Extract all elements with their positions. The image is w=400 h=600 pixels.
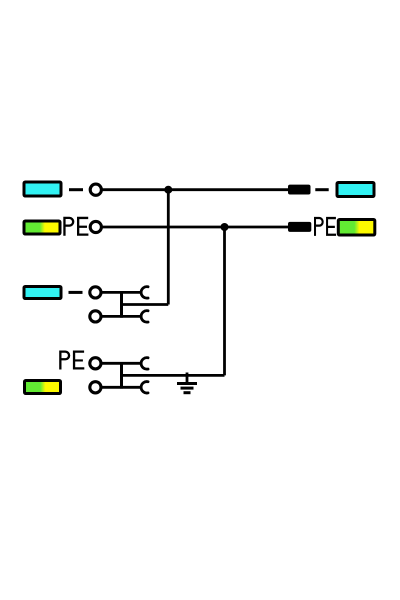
node (entry circle, clamp group 2 upper) [90,358,101,369]
wire (clamp group 2 tap to node B) [122,374,225,377]
clamp contact (spring, group 2 lower) [141,382,148,393]
node (entry circle, clamp group 1 upper) [90,287,101,298]
wire (vertical from node A down to clamp tap) [167,190,170,305]
wire (dash, row 1 left) [69,188,83,191]
marker M3 (green/yellow PE, row 2 left) [24,221,60,234]
wire (clamp group 2 lower contact) [102,386,141,389]
label PE (row 2 right) [314,217,336,236]
node (entry circle, clamp group 1 lower) [90,311,101,322]
wire (vertical from node B down to PE tap) [223,227,226,375]
node A (junction dot, row 1) [164,186,172,194]
label PE (clamp group 2) [59,351,84,370]
marker M5 (cyan, clamp group 1) [24,287,61,299]
contact blade (black marker, row 2 right) [288,222,311,232]
node B (junction dot, row 2) [221,223,229,231]
wire (clamp group 1 common bar) [120,291,123,318]
wire (clamp group 2 common bar) [120,362,123,389]
ground (earth symbol) [177,373,197,393]
marker M1 (cyan, row 1 left) [24,182,61,196]
marker M4 (green/yellow PE, row 2 right) [338,220,375,236]
wire (row 2 horizontal) [102,226,288,229]
wire (row 1 horizontal) [102,188,288,191]
clamp contact (spring, group 1 upper) [141,287,148,298]
clamp contact (spring, group 1 lower) [141,311,148,322]
wire (dash, row 1 right) [315,188,328,191]
wire (clamp group 2 upper contact) [102,362,141,365]
label PE (row 2 left) [63,217,88,236]
wire (clamp group 1 lower contact) [102,315,141,318]
clamp contact (spring, group 2 upper) [141,358,148,369]
contact blade (black marker, row 1 right) [288,185,311,195]
marker M2 (cyan, row 1 right) [337,183,374,197]
node (conductor entry circle, row 2) [90,221,101,232]
node (conductor entry circle, row 1) [90,184,101,195]
wire (dash, clamp group 1) [69,291,83,294]
wire (clamp group 1 upper contact) [102,291,141,294]
node (entry circle, clamp group 2 lower) [90,382,101,393]
marker M6 (green/yellow PE, clamp group 2) [25,381,61,394]
wire (clamp group 1 tap to node A) [122,303,169,306]
